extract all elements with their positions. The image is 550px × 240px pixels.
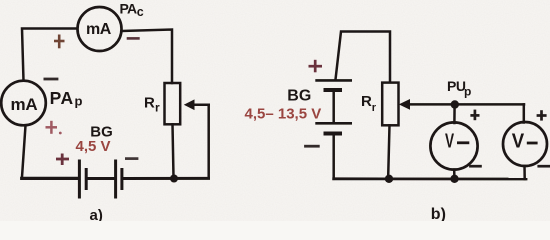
svg-text:V: V	[512, 131, 525, 153]
svg-text:PA: PA	[50, 88, 74, 108]
svg-text:R: R	[361, 93, 372, 110]
svg-text:c: c	[137, 5, 144, 19]
svg-text:PU: PU	[447, 78, 466, 94]
svg-text:p: p	[464, 85, 471, 99]
svg-text:V: V	[445, 130, 455, 152]
svg-text:R: R	[144, 95, 155, 112]
svg-text:b): b)	[431, 206, 446, 221]
svg-text:BG: BG	[287, 88, 311, 105]
svg-text:a): a)	[90, 207, 103, 221]
svg-text:4,5 V: 4,5 V	[76, 138, 111, 155]
svg-text:mA: mA	[11, 95, 38, 114]
svg-text:PA: PA	[120, 1, 137, 17]
svg-text:r: r	[372, 102, 377, 114]
svg-text:r: r	[155, 101, 160, 115]
svg-text:mA: mA	[86, 21, 112, 38]
svg-text:p: p	[75, 93, 83, 108]
svg-text:4,5– 13,5 V: 4,5– 13,5 V	[245, 105, 322, 122]
